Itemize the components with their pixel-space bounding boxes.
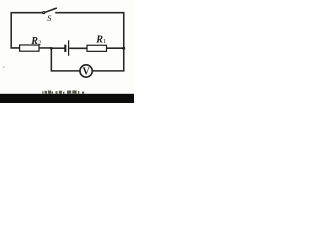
wire top-right + right side + to voltmeter <box>55 13 124 71</box>
voltmeter V <box>80 65 92 78</box>
resistor R1 <box>87 35 107 52</box>
node A (R2/battery/voltmeter junction) <box>50 47 53 50</box>
node B (R1/right-wire junction) <box>122 47 125 50</box>
wire voltmeter branch riser <box>51 48 79 71</box>
svg-text:S: S <box>47 13 52 23</box>
svg-text:2: 2 <box>38 39 41 46</box>
wire R1 to node B <box>107 47 124 49</box>
svg-text:1: 1 <box>103 38 106 45</box>
switch S <box>43 8 57 23</box>
wire top-left + left side + to R2 <box>11 13 43 48</box>
svg-text:V: V <box>82 67 90 78</box>
resistor R2 <box>20 36 42 51</box>
unlabelled scan artifacts: bottom black bar + clipped caption glyph tops <box>0 94 134 103</box>
wire battery to R1 <box>69 47 87 49</box>
battery cell <box>65 40 68 56</box>
wire node A to battery <box>51 47 64 49</box>
wire R2 to node A <box>39 47 51 49</box>
